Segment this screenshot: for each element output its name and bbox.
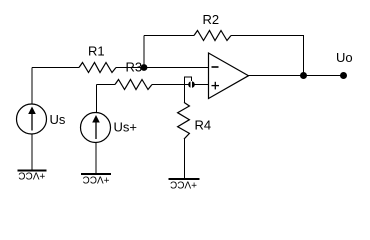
wire [32,67,79,69]
wire [143,36,145,68]
power rail symbol +VCC (rotated) [18,169,47,180]
source Us [17,104,47,134]
svg-text:Us: Us [50,112,66,127]
node terminal Uo [340,72,347,79]
wire [116,67,209,69]
wire [95,85,97,113]
power rail symbol +VCC (rotated) [81,173,111,184]
svg-text:R4: R4 [195,118,212,133]
wire [184,85,186,103]
svg-text:R1: R1 [88,44,105,59]
svg-text:+VCC: +VCC [18,169,45,180]
op-amp U1 [209,53,249,99]
node junction on non-inverting input [188,81,195,88]
node junction output [300,72,307,79]
resistor R2 [194,31,231,41]
power rail symbol +VCC (rotated) [169,179,200,190]
node junction on inverting input [141,64,148,71]
slit in node [190,81,192,88]
svg-text:R3: R3 [126,60,143,75]
wire [95,143,97,175]
svg-text:R2: R2 [203,12,220,27]
wire [184,139,186,179]
resistor R3 [115,80,152,90]
svg-text:+VCC: +VCC [83,173,110,184]
wire bump over node [185,77,192,85]
source Us+ [81,113,111,143]
wire [231,35,304,37]
wire [144,35,194,37]
wire [303,36,305,76]
wire [31,68,33,105]
svg-text:Uo: Uo [336,50,353,65]
wire [31,134,33,171]
svg-text:+VCC: +VCC [170,179,197,190]
wire [96,84,115,86]
resistor R1 [79,63,116,73]
svg-text:Us+: Us+ [114,120,137,135]
resistor R4 [178,102,190,139]
wire [152,84,209,86]
wire output [249,75,344,77]
